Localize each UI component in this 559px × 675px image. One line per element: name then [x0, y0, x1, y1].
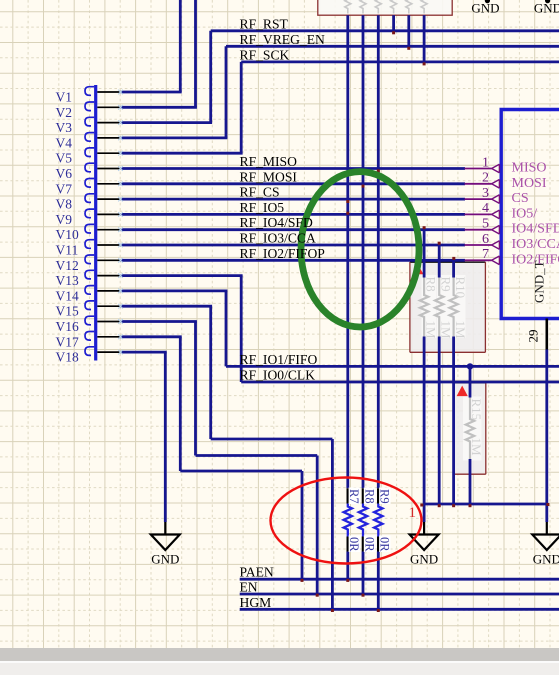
svg-text:HGM: HGM	[240, 595, 272, 610]
svg-text:IO4/SFD: IO4/SFD	[512, 222, 559, 237]
svg-text:1M: 1M	[423, 321, 438, 340]
svg-text:MISO: MISO	[512, 161, 547, 176]
svg-text:PAEN: PAEN	[240, 565, 274, 580]
svg-text:V17: V17	[56, 334, 79, 349]
svg-text:IO3/CCA: IO3/CCA	[512, 237, 559, 252]
svg-text:GND: GND	[533, 552, 559, 567]
svg-text:IO5/: IO5/	[512, 206, 538, 221]
svg-text:RF_CS: RF_CS	[240, 185, 280, 200]
svg-text:GND: GND	[410, 552, 438, 567]
svg-text:0R: 0R	[378, 537, 392, 552]
svg-text:RF_VREG_EN: RF_VREG_EN	[240, 32, 326, 47]
svg-text:R15: R15	[469, 399, 484, 421]
svg-text:RF_RST: RF_RST	[240, 16, 289, 31]
svg-text:V18: V18	[56, 350, 79, 365]
svg-text:4: 4	[482, 201, 489, 216]
svg-text:R8: R8	[423, 277, 438, 292]
svg-text:1M: 1M	[469, 438, 484, 457]
svg-text:0R: 0R	[347, 537, 361, 552]
svg-text:V7: V7	[56, 181, 73, 196]
svg-text:CS: CS	[512, 191, 529, 206]
svg-text:V1: V1	[56, 90, 73, 105]
svg-text:R7: R7	[347, 489, 361, 504]
svg-text:V11: V11	[56, 243, 79, 258]
svg-text:V16: V16	[56, 319, 79, 334]
svg-text:RF_IO3/CCA: RF_IO3/CCA	[240, 231, 316, 246]
svg-text:R8: R8	[362, 489, 376, 504]
svg-text:R10: R10	[453, 277, 468, 299]
svg-text:V13: V13	[56, 273, 79, 288]
svg-text:RF_MISO: RF_MISO	[240, 154, 298, 169]
svg-text:1M: 1M	[453, 321, 468, 340]
svg-text:3: 3	[482, 186, 489, 201]
svg-text:6: 6	[482, 232, 489, 247]
svg-text:V12: V12	[56, 258, 79, 273]
svg-text:V5: V5	[56, 151, 73, 166]
svg-text:RF_IO1/FIFO: RF_IO1/FIFO	[240, 352, 318, 367]
svg-text:V15: V15	[56, 304, 79, 319]
svg-text:V6: V6	[56, 166, 73, 181]
svg-text:EN: EN	[240, 580, 258, 595]
svg-text:5: 5	[482, 217, 489, 232]
svg-text:V9: V9	[56, 212, 73, 227]
svg-text:1: 1	[409, 505, 417, 521]
svg-text:RF_IO4/SFD: RF_IO4/SFD	[240, 215, 313, 230]
svg-text:GND: GND	[151, 552, 179, 567]
svg-text:V4: V4	[56, 135, 73, 150]
svg-text:RF_IO2/FIFOP: RF_IO2/FIFOP	[240, 246, 326, 261]
svg-text:GND_T: GND_T	[532, 260, 547, 303]
svg-text:R9: R9	[378, 489, 392, 504]
svg-text:V2: V2	[56, 105, 73, 120]
svg-text:V14: V14	[56, 288, 79, 303]
svg-text:RF_MOSI: RF_MOSI	[240, 169, 298, 184]
svg-text:RF_SCK: RF_SCK	[240, 47, 290, 62]
svg-text:RF_IO0/CLK: RF_IO0/CLK	[240, 368, 316, 383]
svg-text:RF_IO5: RF_IO5	[240, 200, 285, 215]
svg-text:2: 2	[482, 171, 489, 186]
svg-text:0R: 0R	[362, 537, 376, 552]
svg-text:GND: GND	[471, 0, 499, 15]
svg-text:GND: GND	[534, 0, 559, 15]
svg-text:1: 1	[482, 155, 489, 170]
svg-text:V3: V3	[56, 120, 73, 135]
svg-text:V10: V10	[56, 227, 79, 242]
svg-text:29: 29	[526, 330, 541, 343]
svg-text:MOSI: MOSI	[512, 176, 547, 191]
svg-text:V8: V8	[56, 197, 73, 212]
svg-text:7: 7	[482, 247, 489, 262]
